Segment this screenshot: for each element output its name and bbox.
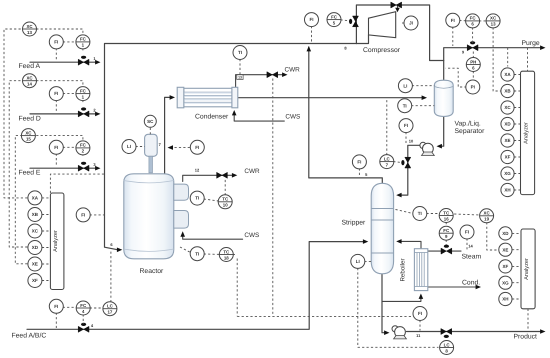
svg-text:10: 10 bbox=[223, 203, 228, 208]
svg-text:TI: TI bbox=[238, 50, 242, 55]
svg-text:LI: LI bbox=[127, 144, 131, 149]
svg-text:XB: XB bbox=[32, 212, 39, 217]
svg-text:Product: Product bbox=[514, 334, 538, 341]
svg-text:15: 15 bbox=[26, 136, 31, 141]
svg-text:Feed D: Feed D bbox=[19, 116, 41, 123]
svg-text:XF: XF bbox=[32, 278, 38, 283]
svg-text:Cond.: Cond. bbox=[462, 280, 480, 287]
svg-text:FI: FI bbox=[195, 145, 199, 150]
svg-text:XD: XD bbox=[504, 122, 511, 127]
svg-text:FI: FI bbox=[404, 123, 408, 128]
svg-text:13: 13 bbox=[491, 22, 496, 27]
svg-text:10: 10 bbox=[409, 139, 414, 144]
svg-text:XC: XC bbox=[26, 76, 33, 81]
svg-text:FI: FI bbox=[54, 145, 58, 150]
svg-text:FI: FI bbox=[465, 230, 469, 235]
svg-text:Stripper: Stripper bbox=[342, 220, 367, 227]
svg-text:CWS: CWS bbox=[244, 232, 259, 239]
svg-text:FI: FI bbox=[54, 304, 58, 309]
svg-text:FC: FC bbox=[80, 143, 87, 148]
svg-text:Reactor: Reactor bbox=[140, 268, 165, 275]
svg-text:TI: TI bbox=[195, 251, 199, 256]
svg-text:LC: LC bbox=[107, 304, 114, 309]
svg-text:XD: XD bbox=[502, 231, 509, 236]
svg-text:Reboiler: Reboiler bbox=[400, 258, 407, 281]
svg-text:18: 18 bbox=[224, 255, 229, 260]
svg-text:FI: FI bbox=[418, 311, 422, 316]
svg-text:XC: XC bbox=[504, 105, 511, 110]
svg-text:XD: XD bbox=[32, 245, 39, 250]
svg-text:FC: FC bbox=[80, 88, 87, 93]
svg-text:PI: PI bbox=[471, 85, 475, 90]
svg-text:XC: XC bbox=[26, 24, 33, 29]
svg-text:Compressor: Compressor bbox=[363, 47, 401, 54]
svg-text:16: 16 bbox=[444, 216, 449, 221]
svg-text:FI: FI bbox=[54, 91, 58, 96]
svg-text:CWR: CWR bbox=[285, 67, 301, 74]
svg-text:XC: XC bbox=[25, 130, 32, 135]
svg-text:XC: XC bbox=[484, 211, 491, 216]
svg-text:FC: FC bbox=[470, 16, 477, 21]
svg-text:Feed E: Feed E bbox=[19, 170, 41, 177]
svg-text:TI: TI bbox=[418, 211, 422, 216]
svg-text:13: 13 bbox=[238, 75, 242, 79]
svg-text:17: 17 bbox=[107, 310, 112, 315]
svg-text:XA: XA bbox=[32, 196, 39, 201]
svg-text:FC: FC bbox=[80, 303, 87, 308]
svg-text:Analyzer: Analyzer bbox=[523, 122, 530, 144]
svg-text:Feed A: Feed A bbox=[19, 63, 41, 70]
svg-text:XF: XF bbox=[505, 155, 511, 160]
svg-text:14: 14 bbox=[468, 244, 473, 249]
svg-text:CWS: CWS bbox=[285, 113, 300, 120]
svg-text:TC: TC bbox=[223, 249, 230, 254]
svg-text:XB: XB bbox=[504, 89, 511, 94]
svg-text:XE: XE bbox=[502, 247, 508, 252]
svg-text:LI: LI bbox=[356, 259, 360, 264]
svg-text:XC: XC bbox=[32, 229, 39, 234]
svg-text:Purge: Purge bbox=[522, 40, 540, 47]
svg-text:XH: XH bbox=[504, 188, 510, 193]
svg-text:Analyzer: Analyzer bbox=[52, 230, 59, 252]
svg-text:Vap./Liq.: Vap./Liq. bbox=[455, 121, 481, 128]
svg-text:FC: FC bbox=[80, 37, 87, 42]
svg-text:FC: FC bbox=[443, 228, 450, 233]
svg-text:LC: LC bbox=[384, 156, 391, 161]
svg-text:TC: TC bbox=[443, 210, 450, 215]
svg-text:Condenser: Condenser bbox=[195, 114, 229, 121]
svg-text:SC: SC bbox=[147, 119, 154, 124]
svg-text:FI: FI bbox=[81, 213, 85, 218]
svg-text:XE: XE bbox=[32, 262, 38, 267]
svg-text:14: 14 bbox=[27, 82, 32, 87]
svg-text:FI: FI bbox=[54, 40, 58, 45]
svg-text:Steam: Steam bbox=[462, 254, 482, 261]
svg-text:12: 12 bbox=[195, 168, 200, 173]
svg-text:Feed A/B/C: Feed A/B/C bbox=[12, 333, 47, 340]
svg-text:XG: XG bbox=[502, 280, 509, 285]
svg-text:XE: XE bbox=[504, 138, 510, 143]
svg-text:XC: XC bbox=[490, 16, 497, 21]
svg-text:13: 13 bbox=[27, 30, 32, 35]
svg-text:XG: XG bbox=[504, 171, 511, 176]
svg-text:Separator: Separator bbox=[455, 128, 486, 135]
svg-text:PH: PH bbox=[470, 59, 476, 64]
svg-text:LC: LC bbox=[444, 342, 451, 347]
svg-text:FI: FI bbox=[357, 160, 361, 165]
svg-text:LI: LI bbox=[403, 83, 407, 88]
svg-text:JI: JI bbox=[409, 21, 413, 26]
svg-text:TI: TI bbox=[403, 103, 407, 108]
svg-text:TC: TC bbox=[222, 197, 229, 202]
svg-text:CWR: CWR bbox=[244, 168, 260, 175]
svg-text:XH: XH bbox=[502, 297, 508, 302]
svg-text:TI: TI bbox=[195, 196, 199, 201]
svg-text:XF: XF bbox=[503, 264, 509, 269]
svg-text:XA: XA bbox=[504, 72, 511, 77]
svg-text:FI: FI bbox=[310, 17, 314, 22]
svg-text:FI: FI bbox=[451, 18, 455, 23]
svg-text:19: 19 bbox=[484, 217, 489, 222]
svg-text:Analyzer: Analyzer bbox=[523, 258, 530, 280]
svg-text:FC: FC bbox=[331, 14, 338, 19]
